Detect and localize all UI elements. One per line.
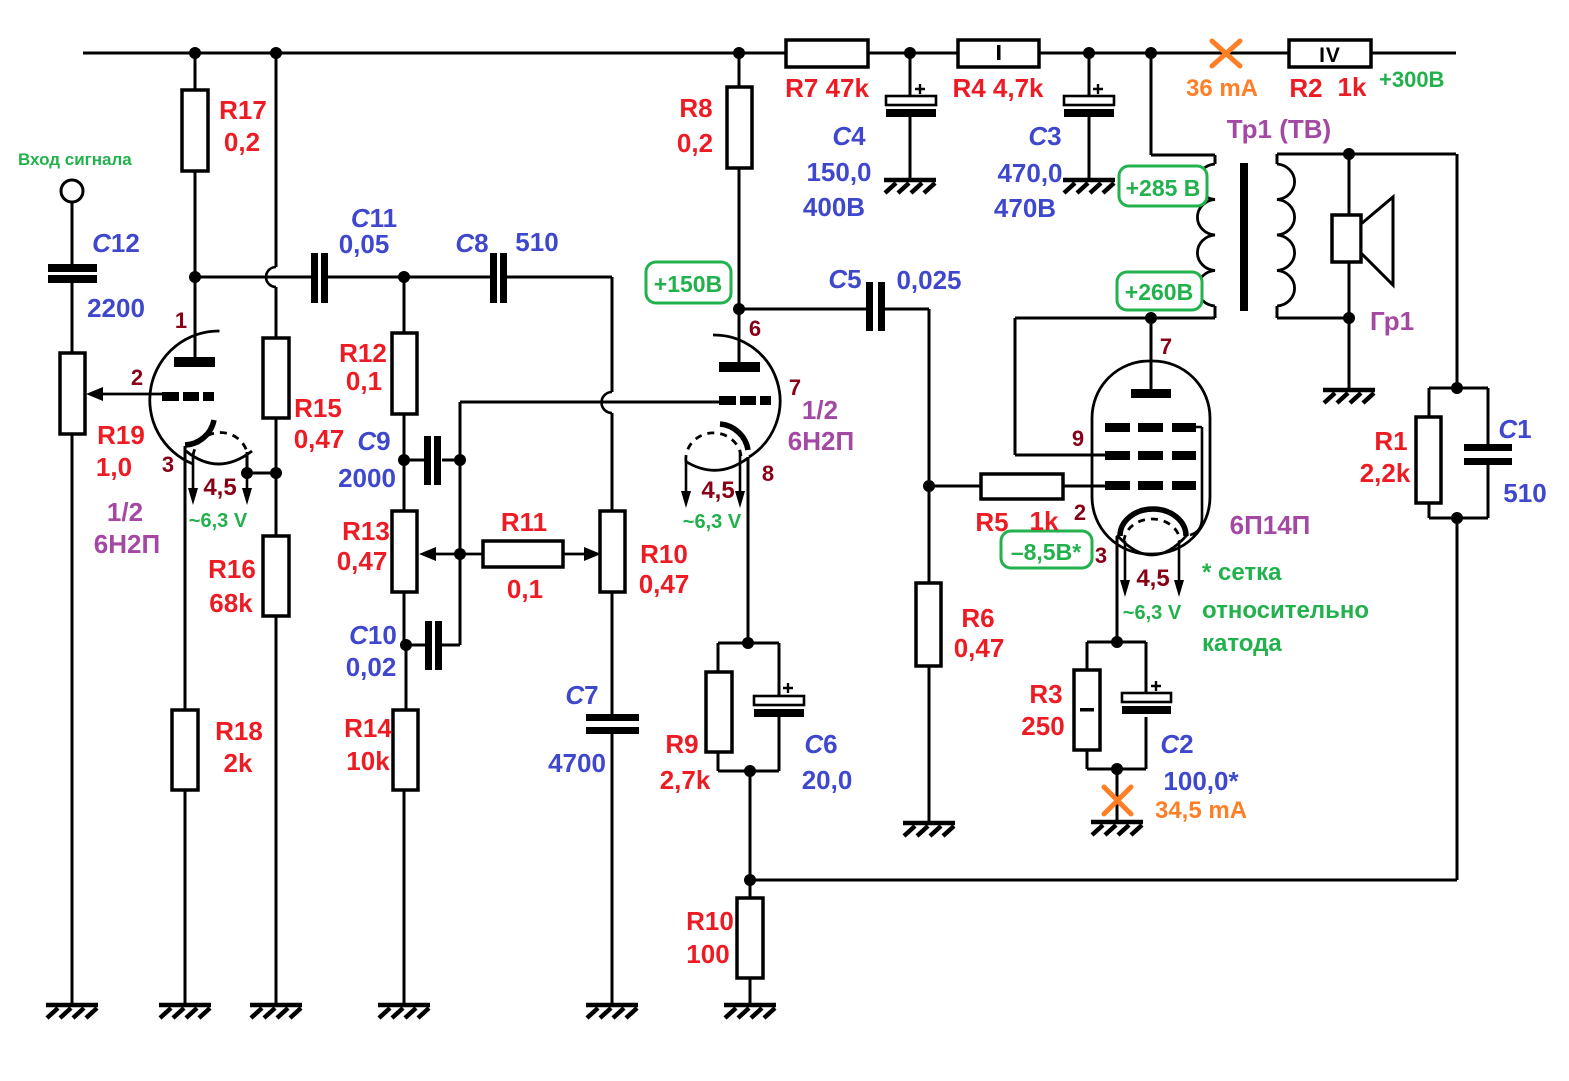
pentode V3 control grid g1 dashes pin2 [1105,481,1196,490]
svg-text:C5: C5 [828,264,861,294]
capacitor C6 electrolytic [754,683,804,717]
pentode V3 6P14P envelope [1092,361,1210,554]
node pentode cathode [1111,636,1123,648]
node R12-C9 [398,454,410,466]
wire +300V top rail [83,52,1456,55]
wire R17 bottom lead to node A [194,171,197,277]
resistor R6 [916,583,941,666]
svg-text:0,025: 0,025 [896,265,961,295]
capacitor C1 [1464,444,1512,465]
node R1C1 top [1451,382,1463,394]
capacitor C3 electrolytic [1064,84,1114,117]
svg-text:2000: 2000 [338,463,396,493]
resistor R7 [786,40,868,67]
svg-text:6Н2П: 6Н2П [94,529,160,559]
voltage box -8.5V [1001,531,1092,568]
svg-text:C8: C8 [455,228,488,258]
svg-text:R11: R11 [501,507,547,537]
pentode V3 cathode bottom arc [1117,535,1187,555]
svg-text:C10: C10 [349,620,397,650]
svg-text:7: 7 [1160,334,1172,359]
svg-text:2: 2 [131,365,143,390]
svg-text:510: 510 [1503,478,1546,508]
svg-text:R17: R17 [219,95,267,125]
svg-text:2: 2 [1074,500,1086,525]
svg-text:470,0: 470,0 [997,158,1062,188]
svg-text:0,2: 0,2 [224,127,260,157]
resistor R9 [706,672,732,752]
heater arrow V1 pin5 [246,473,249,492]
svg-text:0,02: 0,02 [346,652,397,682]
wire node +150V to C5 and onward [739,308,929,311]
wire R19 to ground [71,434,74,1005]
svg-text:Гр1: Гр1 [1370,306,1414,336]
transformer Tr1 core [1240,163,1248,311]
svg-text:470В: 470В [994,193,1056,223]
transformer Tr1 primary winding [1197,164,1215,306]
wire R13 to C10 node [403,592,406,645]
wire R12 top lead [403,277,406,333]
svg-text:150,0: 150,0 [806,157,871,187]
wire R11 left lead with wiper arrow into R13 [432,553,483,556]
wire hop over grid line crossing [602,392,613,413]
wire C10 node to R14 [405,645,408,710]
resistor R11 [483,541,563,567]
wire speaker top lead [1348,154,1351,215]
wire screen grid pin9 tie to +260V node [1015,318,1105,455]
voltage box +285V [1119,166,1207,206]
svg-text:1/2: 1/2 [107,497,143,527]
wire triode V1 plate lead [194,277,197,357]
resistor R14 [393,710,418,790]
svg-text:1: 1 [175,308,187,333]
svg-text:1k: 1k [1338,72,1367,102]
triode V1 grid dashes pin2 [162,392,214,401]
svg-text:R14: R14 [344,713,392,743]
triode V2 1/2 6N2P envelope [713,335,780,457]
wire R1C1 top tie [1429,388,1488,444]
svg-text:C6: C6 [804,729,837,759]
svg-text:3: 3 [1095,543,1107,568]
ground C3 [1063,180,1115,193]
node R9C6 bottom [744,765,756,777]
wire R14 to ground [403,790,406,1005]
svg-text:* сетка: * сетка [1202,559,1282,586]
wire triode V2 grid line [460,401,719,404]
svg-text:C3: C3 [1028,121,1061,151]
wire x460 riser grid bus [459,402,462,645]
wire input terminal to C12 [71,202,74,264]
pentode V3 cathode thick dome [1120,509,1186,536]
svg-text:R8: R8 [679,93,712,123]
triode V2 plate bar [719,362,760,372]
wire pentode cathode pin3 lead [1116,536,1119,642]
svg-text:~6,3 V: ~6,3 V [683,511,742,533]
svg-text:2k: 2k [224,748,253,778]
wire R17 top lead [194,53,197,90]
wire transformer primary bottom lead [1214,306,1217,318]
node rail-Tr1 [1145,47,1157,59]
svg-text:R18: R18 [215,716,263,746]
capacitor C12 [48,264,97,283]
svg-text:100,0*: 100,0* [1163,766,1239,796]
wire C3 leads [1088,53,1091,179]
svg-text:0,05: 0,05 [339,229,390,259]
heater arrow V2 pin4 [685,462,688,495]
svg-text:относительно: относительно [1202,597,1369,624]
svg-text:68k: 68k [209,588,253,618]
svg-text:C9: C9 [357,426,390,456]
wire transformer secondary top lead [1277,154,1456,164]
svg-text:катода: катода [1202,630,1282,657]
wire node A to C11 and C8 row [195,276,612,279]
wire R1C1 bottom tie [1429,465,1488,518]
svg-text:400В: 400В [803,192,865,222]
node R3C2 bottom [1111,763,1123,775]
wire C4 leads [909,53,912,179]
resistor R1 [1416,417,1441,503]
svg-text:2200: 2200 [87,293,145,323]
wire cathode network to ground through meter X [1116,769,1119,822]
svg-text:0,47: 0,47 [294,424,345,454]
svg-text:C1: C1 [1498,414,1531,444]
node R13-C10 [400,639,412,651]
resistor R10 potentiometer [600,511,625,592]
svg-text:+285 В: +285 В [1126,175,1201,201]
node R5-R6 [923,480,935,492]
svg-text:36 mA: 36 mA [1186,75,1258,102]
resistor R3 with minus mark [1074,670,1100,750]
resistor R19 potentiometer [60,353,85,434]
svg-text:+150В: +150В [654,271,722,297]
wire R3/C2 top tie [1087,642,1146,693]
svg-text:4,5: 4,5 [203,474,236,501]
wire +260V node line [1015,317,1215,320]
svg-text:~6,3 V: ~6,3 V [1123,602,1182,624]
node +260V [1145,312,1157,324]
ground C4 [884,180,936,193]
pentode V3 grid g3 dashes [1105,423,1196,432]
transformer Tr1 secondary winding [1277,164,1295,306]
node rail-C4 [904,47,916,59]
node +150V [733,303,745,315]
ground R18 [159,1005,211,1018]
node R11 tap [454,548,466,560]
node rail-R8 [733,47,745,59]
svg-text:R2: R2 [1289,73,1322,103]
wire R12 to C9 node [403,414,406,460]
pentode V3 cathode dashed dome [1124,519,1180,542]
current break mark X 34.5mA [1104,787,1131,814]
resistor R5 [981,474,1063,499]
resistor R18 [172,710,198,790]
resistor R4 with 1W mark [958,40,1039,67]
ground C7 [586,1005,638,1018]
capacitor C2 electrolytic [1122,681,1171,714]
resistor R2 with 1V mark [1289,40,1371,67]
svg-text:10k: 10k [346,746,390,776]
ground R6 [903,823,955,836]
svg-text:0,1: 0,1 [346,366,382,396]
wire R18 to ground [184,790,187,1005]
wire V2 cathode pin8 down to R9/C6 [747,457,750,643]
svg-text:34,5 mA: 34,5 mA [1155,797,1247,824]
svg-text:3: 3 [162,452,174,477]
svg-text:0,2: 0,2 [677,128,713,158]
svg-text:2,2k: 2,2k [1360,458,1411,488]
wire pentode g3 internal tie to cathode [1190,427,1202,535]
wire R1C1 to feedback line [1456,518,1459,880]
svg-text:R19: R19 [97,420,145,450]
wire C7 to ground [611,734,614,1005]
input terminal circle [61,180,83,202]
pentode V3 screen grid g2 dashes pin9 [1105,451,1196,460]
capacitor C10 [425,621,442,670]
wire R5 leads [929,485,1105,488]
wire triode V1 cathode pin3 to R18 [184,446,187,710]
wire R8 top lead [738,53,741,87]
node B cathode2 stub [241,467,253,479]
svg-text:C12: C12 [92,228,140,258]
svg-text:+300В: +300В [1379,67,1444,92]
voltage box +150V [646,262,731,303]
wire R11 right lead with wiper arrow into R10 [563,553,588,556]
svg-text:7: 7 [789,375,801,400]
svg-text:Вход сигнала: Вход сигнала [18,150,132,169]
wire C10 leads [406,644,460,647]
wire rail to transformer primary [1151,53,1215,164]
svg-text:0,47: 0,47 [639,569,690,599]
capacitor C4 electrolytic [886,84,936,117]
svg-text:R9: R9 [665,729,698,759]
triode V1 cathode thick arc [185,420,214,445]
svg-text:6Н2П: 6Н2П [788,426,854,456]
svg-text:8: 8 [762,461,774,486]
node C11-R12 [398,271,410,283]
resistor R10b feedback 100 [737,898,763,978]
node B R15-R16 [270,467,282,479]
svg-text:R4 4,7k: R4 4,7k [952,73,1044,103]
svg-text:R10: R10 [640,539,688,569]
wire R9/C6 bottom tie [718,717,779,771]
triode V1 cathode-2 dashed dome [193,432,247,456]
resistor R16 [263,536,289,616]
svg-text:C2: C2 [1160,729,1193,759]
svg-text:R15: R15 [294,393,342,423]
svg-text:0,47: 0,47 [337,546,388,576]
svg-text:Тр1 (ТВ): Тр1 (ТВ) [1227,114,1331,144]
wire speaker bottom lead to ground [1348,262,1351,390]
wire R9/C6 top tie [718,643,779,696]
capacitor C9 [424,436,441,485]
node rail-R15 [270,47,282,59]
resistor R15 [263,338,289,418]
wire R10 to C7 [611,592,614,714]
svg-text:C4: C4 [832,121,866,151]
svg-text:9: 9 [1072,426,1084,451]
voltage box +260V [1117,272,1202,310]
speaker Gr1 [1332,197,1393,285]
svg-text:250: 250 [1021,711,1064,741]
ground pentode cathode [1091,822,1143,835]
node rail-C3 [1083,47,1095,59]
wire C9 node to R13 [403,460,406,511]
triode V2 cathode thick arc [720,424,748,450]
ground R14 [378,1005,430,1018]
wire C12 to R19 [71,283,74,353]
svg-text:R6: R6 [961,603,994,633]
node R1C1 bottom [1451,512,1463,524]
wire C5 output riser to R5 node [928,309,931,486]
triode V2 cathode bottom arc [685,458,748,470]
node rail-R17 [189,47,201,59]
svg-text:4700: 4700 [548,748,606,778]
resistor R8 [727,87,752,168]
svg-text:2,7k: 2,7k [660,765,711,795]
svg-text:100: 100 [686,939,729,969]
svg-text:R10: R10 [686,906,734,936]
node secondary-speaker bottom [1343,312,1355,324]
resistor R13 potentiometer [392,511,417,592]
wire C9 left and right leads [404,459,460,462]
svg-text:R13: R13 [342,516,390,546]
capacitor C11 [311,253,328,303]
wire triode V2 plate lead [738,309,741,362]
wire R15 to node B [275,418,278,473]
svg-text:1,0: 1,0 [96,452,132,482]
svg-text:510: 510 [515,227,558,257]
wire triode V1 grid lead with wiper arrow to R19 [99,393,162,396]
svg-text:6: 6 [749,316,761,341]
ground R16 [250,1005,302,1018]
svg-text:R16: R16 [208,554,256,584]
svg-text:R3: R3 [1029,679,1062,709]
svg-text:20,0: 20,0 [802,765,853,795]
triode V1 1/2 6N2P envelope [150,331,220,464]
wire hop over y277 crossing [266,267,276,287]
svg-text:1/2: 1/2 [802,395,838,425]
svg-text:–8,5В*: –8,5В* [1011,539,1081,565]
ground R10b [724,1005,776,1018]
svg-text:0,1: 0,1 [507,574,543,604]
ground input line [46,1005,98,1018]
wire R6 to ground [928,666,931,823]
triode V2 cathode-2 dashed dome [686,433,741,462]
wire V1 cathode-2 stub to node B [247,452,276,473]
wire R16 to ground [275,616,278,1005]
triode V1 cathode bottom arc [186,451,252,464]
wire cathode node down to feedback node [749,771,752,898]
svg-text:+260В: +260В [1125,279,1193,305]
resistor R12 [392,333,417,414]
triode V2 grid dashes pin7 [719,396,771,405]
wire x612 from C8 down to R10 with hop [611,277,614,511]
wire feedback line [750,879,1457,882]
svg-text:6П14П: 6П14П [1230,510,1311,540]
heater arrow V1 pin4 [192,457,195,492]
capacitor C7 [586,714,639,734]
wire node B to R16 [275,473,278,536]
node A R17-C11 [189,271,201,283]
wire R8 to node +150V [738,168,741,309]
ground speaker [1323,390,1375,403]
svg-text:R1: R1 [1374,426,1407,456]
wire pentode plate pin7 lead [1150,318,1153,389]
triode V1 plate bar [174,357,215,367]
wire transformer secondary bottom lead [1277,306,1349,318]
svg-text:4,5: 4,5 [701,477,734,504]
heater arrow pentode pin5 [1178,541,1181,584]
svg-text:R5: R5 [975,507,1008,537]
node feedback tap [744,874,756,886]
capacitor C8 [490,253,507,303]
wire secondary to R1C1 network [1456,154,1459,388]
svg-text:0,47: 0,47 [954,633,1005,663]
node V2 cathode R9C6 [742,637,754,649]
svg-text:R7 47k: R7 47k [785,73,869,103]
node C9-x460 [454,454,466,466]
svg-text:~6,3 V: ~6,3 V [189,510,248,532]
pentode V3 plate bar pin7 [1131,389,1171,398]
resistor R17 [182,90,208,171]
wire R5 node to R6 [928,486,931,583]
heater arrow V2 pin5 [739,450,742,495]
svg-text:C7: C7 [565,680,598,710]
svg-text:R12: R12 [339,338,387,368]
heater arrow pentode pin4 [1124,541,1127,584]
svg-text:1k: 1k [1030,506,1059,536]
wire R3/C2 bottom tie [1087,717,1146,769]
wire R10b to ground [749,978,752,1005]
svg-text:4,5: 4,5 [1136,565,1169,592]
svg-text:IV: IV [1319,44,1341,67]
current break mark X 36mA [1212,41,1240,66]
node secondary-speaker top [1343,148,1355,160]
wire x276 branch from rail to R15 with hop [275,53,278,338]
capacitor C5 [866,282,885,331]
